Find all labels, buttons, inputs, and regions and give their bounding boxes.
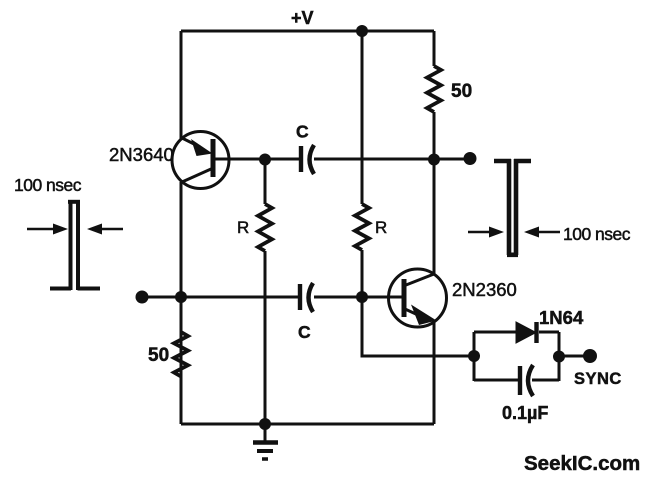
output pulse waveform [494,159,531,255]
terminal input [136,291,149,304]
wire right rail top to 50 resistor [433,31,436,66]
junction node input on left rail [175,291,187,303]
output pulse left arrow [468,227,504,238]
wire left rail upper [180,31,183,139]
junction node diode box right [553,351,565,363]
wire left R branch lower [264,251,267,424]
resistor 50 (bottom left) [174,332,188,376]
diode box bottom branch left wire [474,379,518,382]
capacitor C (bottom) right plate [309,283,314,312]
transistor Q2 emitter lead with arrow [405,305,437,326]
wire input line left [142,296,300,299]
capacitor C (top) left plate [299,146,303,172]
svg-text:SYNC: SYNC [574,370,622,388]
junction node ground [259,418,271,430]
svg-text:C: C [296,122,309,142]
svg-text:R: R [375,218,387,237]
diode 1N64 triangle [516,322,536,343]
svg-text:2N2360: 2N2360 [452,279,517,300]
terminal SYNC [583,349,597,363]
capacitor 0.1uF left plate [518,366,522,395]
ground symbol [253,424,278,459]
wire 50 resistor to output node [433,112,436,159]
junction node output line left [259,154,271,166]
terminal output [464,152,477,165]
junction node base 2N2360 [356,291,368,303]
transistor Q1 2N3640 circle [172,132,229,189]
wire top +V rail [181,30,434,33]
diode box top branch anode wire [474,331,516,334]
transistor Q2 collector lead [406,274,434,285]
transistor Q1 base bar [211,139,216,177]
svg-text:50: 50 [451,81,472,102]
resistor 50 (top right) [427,66,441,112]
svg-text:100 nsec: 100 nsec [14,175,82,195]
resistor R (middle) [355,204,369,250]
transistor Q2 2N2360 circle [389,269,447,327]
wire bottom rail [181,423,434,426]
wire collector lead 2N2360 [433,159,436,275]
diode box bottom branch right wire [532,379,559,382]
wire emitter rail 2N2360 down [433,322,436,424]
transistor Q2 base bar [402,279,407,317]
resistor R (left) [258,204,272,251]
transistor Q1 collector lead [182,169,211,182]
wire middle rail from +V [361,31,364,204]
input pulse right arrow [87,224,123,235]
svg-text:100 nsec: 100 nsec [563,224,631,244]
svg-text:2N3640: 2N3640 [109,144,174,165]
input pulse waveform [50,201,100,290]
wire left rail lower [180,182,183,424]
svg-text:+V: +V [291,8,314,28]
output pulse right arrow [524,227,560,238]
svg-text:SeekIC.com: SeekIC.com [524,452,640,475]
junction node output line right [428,154,440,166]
junction node diode box left [468,350,480,362]
wire output line left (base 2N3640 to cap) [214,158,300,161]
transistor Q1 emitter lead with arrow [182,138,213,156]
wire base node to diode box [362,297,474,356]
diode box right side [558,332,561,381]
input pulse left arrow [27,224,68,235]
wire middle rail below R [361,250,364,297]
svg-text:50: 50 [148,345,169,366]
junction node on +V rail [356,25,368,37]
svg-text:0.1µF: 0.1µF [502,403,548,423]
capacitor 0.1uF right plate [528,365,533,396]
svg-text:1N64: 1N64 [539,307,584,328]
capacitor C (bottom) left plate [298,284,302,310]
diode box left side [473,332,476,381]
svg-text:C: C [298,322,311,342]
svg-text:R: R [237,218,249,237]
wire SYNC output [559,355,585,358]
wire output line right [314,158,470,161]
diode 1N64 cathode bar [534,322,538,343]
wire left R branch [264,159,267,204]
capacitor C (top) right plate [310,145,315,174]
diode box top branch cathode wire [539,331,559,334]
wire input line right [314,296,402,299]
